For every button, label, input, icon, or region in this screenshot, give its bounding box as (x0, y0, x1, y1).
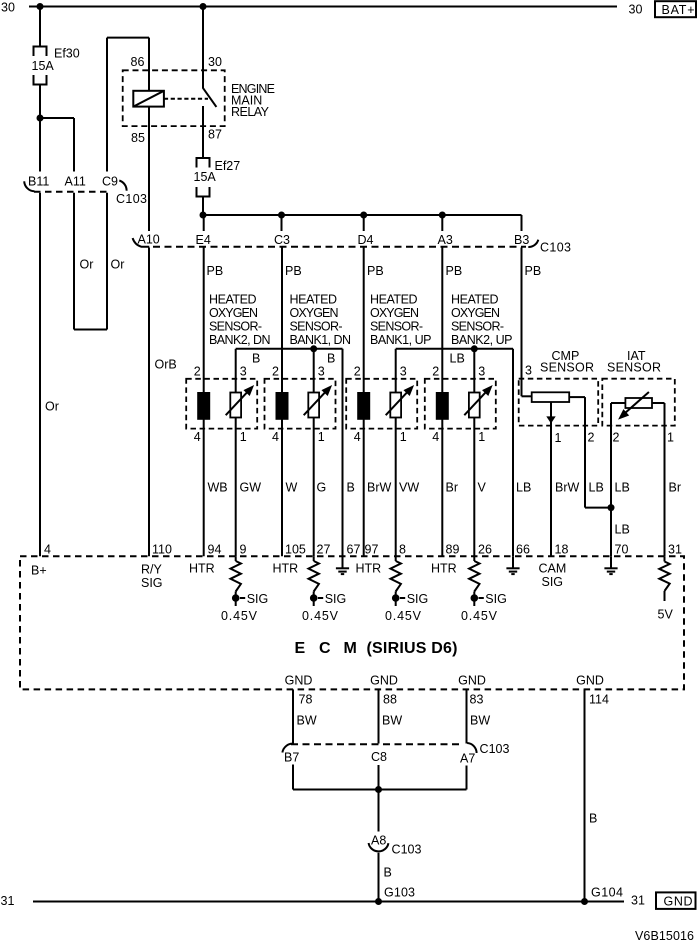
svg-text:B: B (327, 352, 335, 366)
svg-text:V6B15016: V6B15016 (635, 929, 694, 943)
svg-text:OXYGEN: OXYGEN (370, 306, 419, 320)
svg-text:SENSOR-: SENSOR- (290, 320, 343, 334)
svg-text:BW: BW (470, 714, 490, 728)
svg-text:B: B (589, 812, 597, 826)
svg-text:1: 1 (478, 430, 485, 444)
svg-text:3: 3 (400, 365, 407, 379)
svg-text:Ef27: Ef27 (215, 159, 241, 173)
svg-text:27: 27 (317, 543, 331, 557)
svg-text:B7: B7 (284, 751, 299, 765)
svg-text:BANK2, UP: BANK2, UP (451, 333, 513, 347)
svg-text:3: 3 (240, 365, 247, 379)
svg-text:PB: PB (446, 264, 463, 278)
svg-text:SIG: SIG (325, 592, 347, 606)
svg-text:B: B (384, 866, 392, 880)
svg-text:A7: A7 (460, 752, 475, 766)
svg-text:A11: A11 (65, 175, 86, 189)
svg-text:LB: LB (589, 481, 604, 495)
svg-text:BW: BW (382, 714, 402, 728)
svg-text:Br: Br (669, 481, 682, 495)
svg-text:C8: C8 (371, 750, 387, 764)
svg-text:94: 94 (208, 543, 222, 557)
svg-text:Or: Or (80, 258, 94, 272)
svg-text:1: 1 (240, 430, 247, 444)
svg-text:B11: B11 (28, 175, 49, 189)
svg-text:E4: E4 (196, 233, 211, 247)
svg-text:78: 78 (299, 693, 313, 707)
svg-text:4: 4 (272, 430, 279, 444)
svg-text:26: 26 (478, 543, 492, 557)
svg-text:2: 2 (613, 431, 620, 445)
svg-text:GND: GND (664, 895, 693, 909)
svg-text:SENSOR: SENSOR (607, 361, 661, 375)
svg-text:HEATED: HEATED (451, 293, 499, 307)
svg-text:C103: C103 (540, 241, 571, 255)
svg-text:SENSOR: SENSOR (540, 361, 594, 375)
svg-text:C3: C3 (274, 233, 290, 247)
svg-text:GND: GND (285, 674, 313, 688)
svg-text:R/Y: R/Y (141, 563, 163, 577)
svg-text:HEATED: HEATED (370, 293, 418, 307)
svg-text:0.45V: 0.45V (461, 609, 498, 623)
svg-text:PB: PB (207, 264, 224, 278)
svg-text:66: 66 (516, 543, 530, 557)
svg-text:HTR: HTR (431, 562, 457, 576)
svg-text:Or: Or (111, 258, 125, 272)
svg-text:B+: B+ (31, 564, 47, 578)
svg-text:OrB: OrB (155, 358, 177, 372)
svg-text:OXYGEN: OXYGEN (290, 306, 339, 320)
svg-text:G104: G104 (591, 886, 623, 900)
svg-text:31: 31 (631, 894, 645, 908)
svg-text:114: 114 (589, 693, 609, 707)
svg-text:15A: 15A (194, 170, 217, 184)
svg-text:HEATED: HEATED (209, 293, 257, 307)
svg-text:18: 18 (555, 543, 569, 557)
svg-text:C103: C103 (116, 192, 147, 206)
svg-text:SIG: SIG (407, 592, 429, 606)
svg-text:88: 88 (383, 693, 397, 707)
svg-text:GND: GND (576, 674, 604, 688)
svg-text:2: 2 (432, 365, 439, 379)
svg-text:1: 1 (400, 430, 407, 444)
svg-text:G: G (317, 481, 327, 495)
svg-text:3: 3 (478, 365, 485, 379)
svg-text:BAT+: BAT+ (662, 3, 695, 17)
svg-text:B: B (252, 352, 260, 366)
svg-text:W: W (286, 481, 298, 495)
svg-text:4: 4 (194, 430, 201, 444)
svg-text:4: 4 (44, 543, 51, 557)
svg-text:3: 3 (318, 365, 325, 379)
svg-text:GND: GND (458, 674, 486, 688)
svg-text:0.45V: 0.45V (221, 609, 258, 623)
svg-text:G103: G103 (384, 886, 415, 900)
svg-text:C9: C9 (102, 175, 118, 189)
svg-text:WB: WB (208, 481, 228, 495)
svg-text:HTR: HTR (189, 562, 215, 576)
svg-text:LB: LB (516, 481, 531, 495)
svg-text:31: 31 (1, 894, 15, 908)
svg-text:0.45V: 0.45V (385, 609, 422, 623)
svg-text:4: 4 (354, 430, 361, 444)
svg-text:HTR: HTR (273, 562, 299, 576)
svg-text:31: 31 (668, 543, 682, 557)
svg-text:8: 8 (399, 543, 406, 557)
svg-text:VW: VW (399, 481, 419, 495)
svg-text:Br: Br (446, 481, 459, 495)
svg-text:RELAY: RELAY (231, 105, 270, 119)
svg-text:LB: LB (450, 352, 465, 366)
svg-text:V: V (478, 481, 487, 495)
svg-text:2: 2 (588, 431, 595, 445)
svg-text:PB: PB (285, 264, 302, 278)
svg-text:PB: PB (525, 264, 542, 278)
svg-text:HEATED: HEATED (290, 293, 338, 307)
svg-text:HTR: HTR (356, 562, 382, 576)
svg-text:BrW: BrW (367, 481, 392, 495)
svg-text:OXYGEN: OXYGEN (451, 306, 500, 320)
svg-text:C103: C103 (480, 742, 510, 756)
svg-text:9: 9 (240, 543, 247, 557)
svg-text:BANK1, UP: BANK1, UP (370, 333, 432, 347)
svg-text:A10: A10 (138, 233, 160, 247)
svg-text:1: 1 (667, 431, 674, 445)
svg-text:85: 85 (131, 131, 145, 145)
svg-text:87: 87 (208, 128, 222, 142)
svg-text:BANK2, DN: BANK2, DN (209, 333, 271, 347)
svg-text:GND: GND (370, 674, 398, 688)
svg-text:67: 67 (347, 543, 361, 557)
svg-text:Or: Or (45, 400, 59, 414)
svg-text:SIG: SIG (542, 575, 564, 589)
svg-text:30: 30 (629, 3, 643, 17)
svg-text:C103: C103 (392, 843, 422, 857)
svg-text:SENSOR-: SENSOR- (370, 320, 423, 334)
svg-text:BANK1, DN: BANK1, DN (290, 333, 352, 347)
svg-text:70: 70 (615, 543, 629, 557)
svg-text:83: 83 (470, 693, 484, 707)
svg-text:PB: PB (367, 264, 384, 278)
svg-text:2: 2 (272, 365, 279, 379)
svg-text:SENSOR-: SENSOR- (451, 320, 504, 334)
svg-text:B3: B3 (514, 233, 529, 247)
svg-text:GW: GW (240, 481, 262, 495)
svg-text:SIG: SIG (485, 592, 507, 606)
svg-text:30: 30 (208, 55, 222, 69)
svg-text:110: 110 (152, 543, 172, 557)
svg-text:A8: A8 (371, 834, 386, 848)
svg-text:D4: D4 (358, 233, 374, 247)
svg-text:Ef30: Ef30 (54, 47, 80, 61)
svg-text:E: E (295, 640, 306, 657)
svg-text:4: 4 (432, 430, 439, 444)
svg-text:OXYGEN: OXYGEN (209, 306, 258, 320)
svg-text:15A: 15A (32, 59, 55, 73)
svg-text:105: 105 (285, 543, 306, 557)
svg-text:86: 86 (131, 55, 145, 69)
svg-text:2: 2 (194, 365, 201, 379)
svg-text:LB: LB (615, 481, 630, 495)
svg-text:B: B (347, 481, 355, 495)
svg-text:A3: A3 (438, 233, 453, 247)
svg-text:89: 89 (446, 543, 460, 557)
svg-text:0.45V: 0.45V (302, 609, 339, 623)
svg-text:30: 30 (1, 1, 15, 15)
svg-text:SIG: SIG (141, 576, 163, 590)
svg-text:(SIRIUS D6): (SIRIUS D6) (367, 640, 458, 657)
svg-text:1: 1 (318, 430, 325, 444)
svg-text:BW: BW (297, 714, 317, 728)
svg-text:SIG: SIG (247, 592, 269, 606)
svg-text:M: M (344, 640, 357, 657)
svg-text:CAM: CAM (539, 562, 567, 576)
svg-text:BrW: BrW (555, 481, 580, 495)
svg-text:C: C (319, 640, 331, 657)
svg-text:2: 2 (354, 365, 361, 379)
svg-text:97: 97 (365, 543, 379, 557)
svg-text:5V: 5V (658, 608, 674, 622)
svg-text:3: 3 (525, 364, 532, 378)
svg-text:1: 1 (555, 431, 562, 445)
svg-text:SENSOR-: SENSOR- (209, 320, 262, 334)
svg-text:LB: LB (615, 523, 630, 537)
